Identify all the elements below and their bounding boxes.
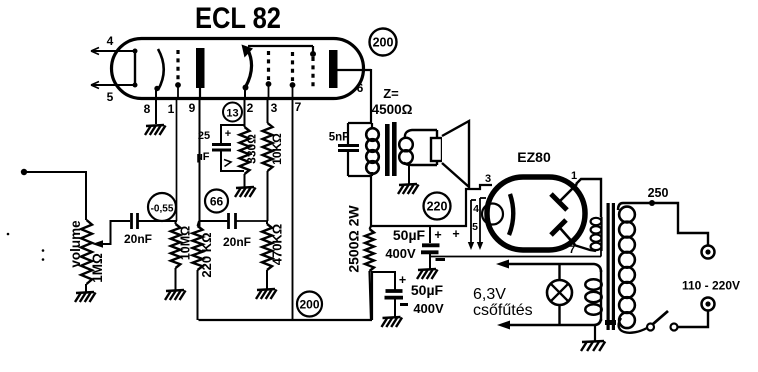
wire transformer center to ground <box>594 325 596 341</box>
node 13V circle <box>223 103 242 122</box>
wire EZ80 anode1 to HT winding <box>576 179 601 217</box>
cathode resistor 330 ohm <box>240 127 250 187</box>
wire pot to ground <box>85 284 87 292</box>
wire 20nF to grid node <box>138 220 177 222</box>
ECL82 triode grid g1 <box>175 50 181 88</box>
power transformer 6.3V winding <box>585 270 601 321</box>
wire triode anode pin9 down <box>199 97 201 228</box>
svg-text:250: 250 <box>648 186 669 200</box>
svg-text:400V: 400V <box>385 246 416 261</box>
filter capacitor 50uF first <box>421 226 440 269</box>
svg-text:1: 1 <box>571 170 577 182</box>
wire screen grid pin7 down <box>292 97 294 320</box>
volume potentiometer 1M <box>81 220 92 284</box>
svg-text:volume: volume <box>68 220 83 268</box>
tube EZ80 label <box>517 149 551 165</box>
svg-text:4: 4 <box>107 34 114 48</box>
ECL82 pentode grid g3 <box>311 57 314 88</box>
ECL82 pentode cathode-g3 tie wire <box>248 46 316 57</box>
svg-text:+: + <box>434 228 441 242</box>
scan speck 2 <box>42 249 45 252</box>
pin label EZ80 1 <box>571 170 577 182</box>
wire anode to coupling cap <box>199 220 228 222</box>
label 250 <box>648 186 669 200</box>
scan speck 1 <box>7 233 10 236</box>
pin label 8 <box>144 102 151 116</box>
svg-text:470KΩ: 470KΩ <box>270 224 285 266</box>
node 220V circle <box>424 193 451 220</box>
node -0.55V circle <box>148 193 176 221</box>
input terminal <box>21 169 27 175</box>
svg-text:200: 200 <box>299 298 319 312</box>
wire pin6 to output transformer <box>370 69 372 123</box>
pin label 5 <box>107 90 114 104</box>
svg-text:330Ω: 330Ω <box>245 134 259 164</box>
wire coupling cap to pentode grid node <box>236 220 268 222</box>
dropper resistor 2500 ohm 2W <box>365 226 374 320</box>
svg-text:5: 5 <box>472 221 478 233</box>
label volume <box>68 220 83 268</box>
label 2500 ohm 2W <box>346 205 362 273</box>
power transformer HT winding <box>591 217 602 251</box>
ECL82 triode cathode <box>154 49 163 91</box>
pin label 9 <box>189 101 196 115</box>
bus 200V rail <box>199 272 373 320</box>
ground at volume pot <box>75 292 96 302</box>
label 10K ohm <box>270 133 284 165</box>
label 20nF input <box>124 232 152 246</box>
label 6.3V <box>473 286 506 303</box>
ECL82 pentode anode <box>329 50 338 88</box>
bypass capacitor 25uF branch wire <box>221 125 244 143</box>
svg-text:EZ80: EZ80 <box>517 149 551 165</box>
anode load resistor 220K <box>193 221 203 320</box>
label 1M ohm <box>90 253 105 283</box>
ECL82 triode grid lead pin 1 <box>177 85 179 97</box>
pin label EZ80 7 <box>569 244 575 256</box>
label 4500 ohm <box>372 102 413 117</box>
output transformer secondary winding <box>399 130 437 165</box>
svg-text:Z=: Z= <box>383 86 399 101</box>
speaker cone <box>442 121 469 187</box>
ground at 470K resistor <box>256 289 277 299</box>
bypass capacitor 25uF lower wire <box>221 150 244 171</box>
svg-text:13: 13 <box>226 108 238 120</box>
scan speck 3 <box>42 258 45 261</box>
EZ80 cathode <box>509 194 513 235</box>
ECL82 pentode grid g2 <box>290 52 296 88</box>
pin label 7 <box>295 100 302 114</box>
svg-text:+: + <box>225 128 231 140</box>
svg-text:220: 220 <box>427 200 448 214</box>
label 20nF interstage <box>223 235 251 249</box>
filter capacitor 50uF second <box>385 291 404 317</box>
svg-text:9: 9 <box>189 101 196 115</box>
pin label EZ80 5 <box>472 221 478 233</box>
pin label EZ80 3 <box>485 173 491 185</box>
wire EZ80 anode2 to HT winding <box>574 245 596 251</box>
pin label 6 <box>357 81 364 95</box>
grid leak resistor 10M <box>171 221 181 290</box>
plus sign 25uF <box>225 128 231 140</box>
svg-text:3: 3 <box>271 101 278 115</box>
label 110-220V <box>682 279 740 293</box>
ground at 10M resistor <box>165 290 186 300</box>
label 50uF second <box>411 282 444 298</box>
lower mains terminal <box>702 298 715 311</box>
svg-text:20nF: 20nF <box>124 232 152 246</box>
EZ80 heater lead pin 4 <box>468 200 476 250</box>
minus sign first cap <box>436 258 446 261</box>
svg-text:+: + <box>452 227 459 241</box>
svg-text:1MΩ: 1MΩ <box>90 253 105 283</box>
wire transformer to B+ node <box>370 176 372 226</box>
heater supply lower wire <box>497 319 601 330</box>
dial lamp <box>547 264 572 325</box>
ECL82 triode anode lead pin 9 <box>199 88 201 97</box>
ECL82 pentode grid g1 <box>266 51 272 87</box>
wire triode grid pin1 down <box>176 97 178 221</box>
EZ80 anode 1 <box>551 184 577 210</box>
label 470K ohm <box>270 224 285 266</box>
node 66V circle <box>205 190 228 213</box>
pin label EZ80 4 <box>473 203 479 215</box>
upper mains terminal <box>702 246 715 259</box>
svg-text:1: 1 <box>168 102 175 116</box>
label 330 ohm <box>245 134 259 164</box>
EZ80 anode 2 <box>551 220 575 245</box>
tube EZ80 envelope <box>487 177 585 250</box>
svg-text:7: 7 <box>295 100 302 114</box>
label 25 <box>198 130 210 142</box>
wire primary to upper terminal <box>623 203 708 245</box>
svg-text:50µF: 50µF <box>411 282 444 298</box>
volume pot wiper <box>92 221 130 248</box>
svg-text:4: 4 <box>473 203 479 215</box>
output transformer primary winding <box>366 123 379 176</box>
ECL82 heater element <box>133 49 138 88</box>
mains switch <box>647 311 678 331</box>
coupling capacitor 20nF input <box>132 213 138 229</box>
pin label 2 <box>247 101 254 115</box>
svg-text:20nF: 20nF <box>223 235 251 249</box>
tone capacitor 5nF branch <box>348 123 372 176</box>
label 50uF first <box>393 227 426 243</box>
tube ECL82 title <box>195 2 281 35</box>
junction dot 250 <box>649 200 655 206</box>
heater supply upper wire <box>496 260 601 273</box>
ground at first cap <box>417 269 438 279</box>
speaker ground wire <box>408 165 410 184</box>
label 10M ohm <box>179 226 193 260</box>
wire pentode cathode pin2 down <box>244 97 246 127</box>
svg-text:220 KΩ: 220 KΩ <box>199 232 214 277</box>
ECL82 pentode anode lead pin 6 <box>337 69 371 71</box>
ground at power transformer <box>581 341 605 351</box>
bypass capacitor 25uF plates <box>212 145 231 151</box>
pin label 3 <box>271 101 278 115</box>
ground at second cap <box>382 317 403 327</box>
ECL82 pentode g2 lead pin 7 <box>292 85 294 97</box>
svg-text:50µF: 50µF <box>393 227 426 243</box>
label uF <box>196 151 209 163</box>
speaker driver <box>431 130 442 165</box>
svg-text:5: 5 <box>107 90 114 104</box>
ECL82 pentode cathode <box>242 45 254 91</box>
coupling capacitor 20nF interstage <box>229 213 236 229</box>
svg-text:csőfűtés: csőfűtés <box>473 302 533 319</box>
svg-text:400V: 400V <box>413 301 444 316</box>
label 220K ohm <box>199 232 214 277</box>
wire input to volume pot <box>24 171 86 220</box>
HT return wire <box>430 250 601 257</box>
svg-text:4500Ω: 4500Ω <box>372 102 413 117</box>
grid resistor 470K <box>262 221 272 289</box>
tube ECL82 envelope <box>112 39 364 99</box>
label csofutes <box>473 302 533 319</box>
svg-text:ECL 82: ECL 82 <box>195 2 281 35</box>
power transformer core <box>605 203 616 330</box>
ECL82 triode anode <box>196 48 205 88</box>
pin label 1 <box>168 102 175 116</box>
label 5nF <box>329 132 349 144</box>
ground at cathode <box>235 187 256 197</box>
node 200V anode circle <box>370 29 397 56</box>
minus sign second cap <box>400 303 408 306</box>
ECL82 triode cathode lead pin 8 <box>155 89 157 124</box>
ground at pin 8 <box>145 125 166 135</box>
plus sign second cap <box>399 273 406 287</box>
svg-text:5nF: 5nF <box>329 132 349 144</box>
wire B+ to EZ80 cathode <box>371 185 492 226</box>
node 200V rail circle <box>297 292 322 317</box>
svg-text:2: 2 <box>247 101 254 115</box>
output transformer core <box>385 122 397 176</box>
svg-text:6: 6 <box>357 81 364 95</box>
svg-text:+: + <box>399 273 406 287</box>
svg-text:-0,55: -0,55 <box>151 204 174 215</box>
wire 200V node to second cap <box>371 272 395 290</box>
svg-text:3: 3 <box>485 173 491 185</box>
plus signs first cap <box>434 227 459 242</box>
label Z= <box>383 86 399 101</box>
ECL82 pentode cathode lead pin 2 <box>244 88 246 97</box>
svg-text:110 - 220V: 110 - 220V <box>682 279 740 293</box>
svg-text:25: 25 <box>198 130 210 142</box>
ground at speaker <box>398 184 419 194</box>
ECL82 heater lead pin 4 <box>91 48 135 55</box>
ECL82 heater lead pin 5 <box>91 82 135 89</box>
wire switch to lower terminal <box>678 311 709 327</box>
svg-text:200: 200 <box>373 36 394 50</box>
grid stopper resistor 10K <box>263 97 273 221</box>
tone capacitor 5nF plates <box>338 146 359 151</box>
svg-text:6,3V: 6,3V <box>473 286 506 303</box>
svg-text:66: 66 <box>210 195 224 209</box>
svg-text:µF: µF <box>196 151 209 163</box>
svg-text:8: 8 <box>144 102 151 116</box>
EZ80 heater circle <box>482 204 503 225</box>
label 400V second <box>413 301 444 316</box>
power transformer primary winding <box>618 203 647 333</box>
pin label 4 <box>107 34 114 48</box>
svg-text:2500Ω 2W: 2500Ω 2W <box>346 205 362 273</box>
EZ80 heater lead pin 5 <box>477 198 486 250</box>
ECL82 pentode g1 lead pin 3 <box>268 84 270 97</box>
svg-text:10KΩ: 10KΩ <box>270 133 284 165</box>
label 400V first <box>385 246 416 261</box>
